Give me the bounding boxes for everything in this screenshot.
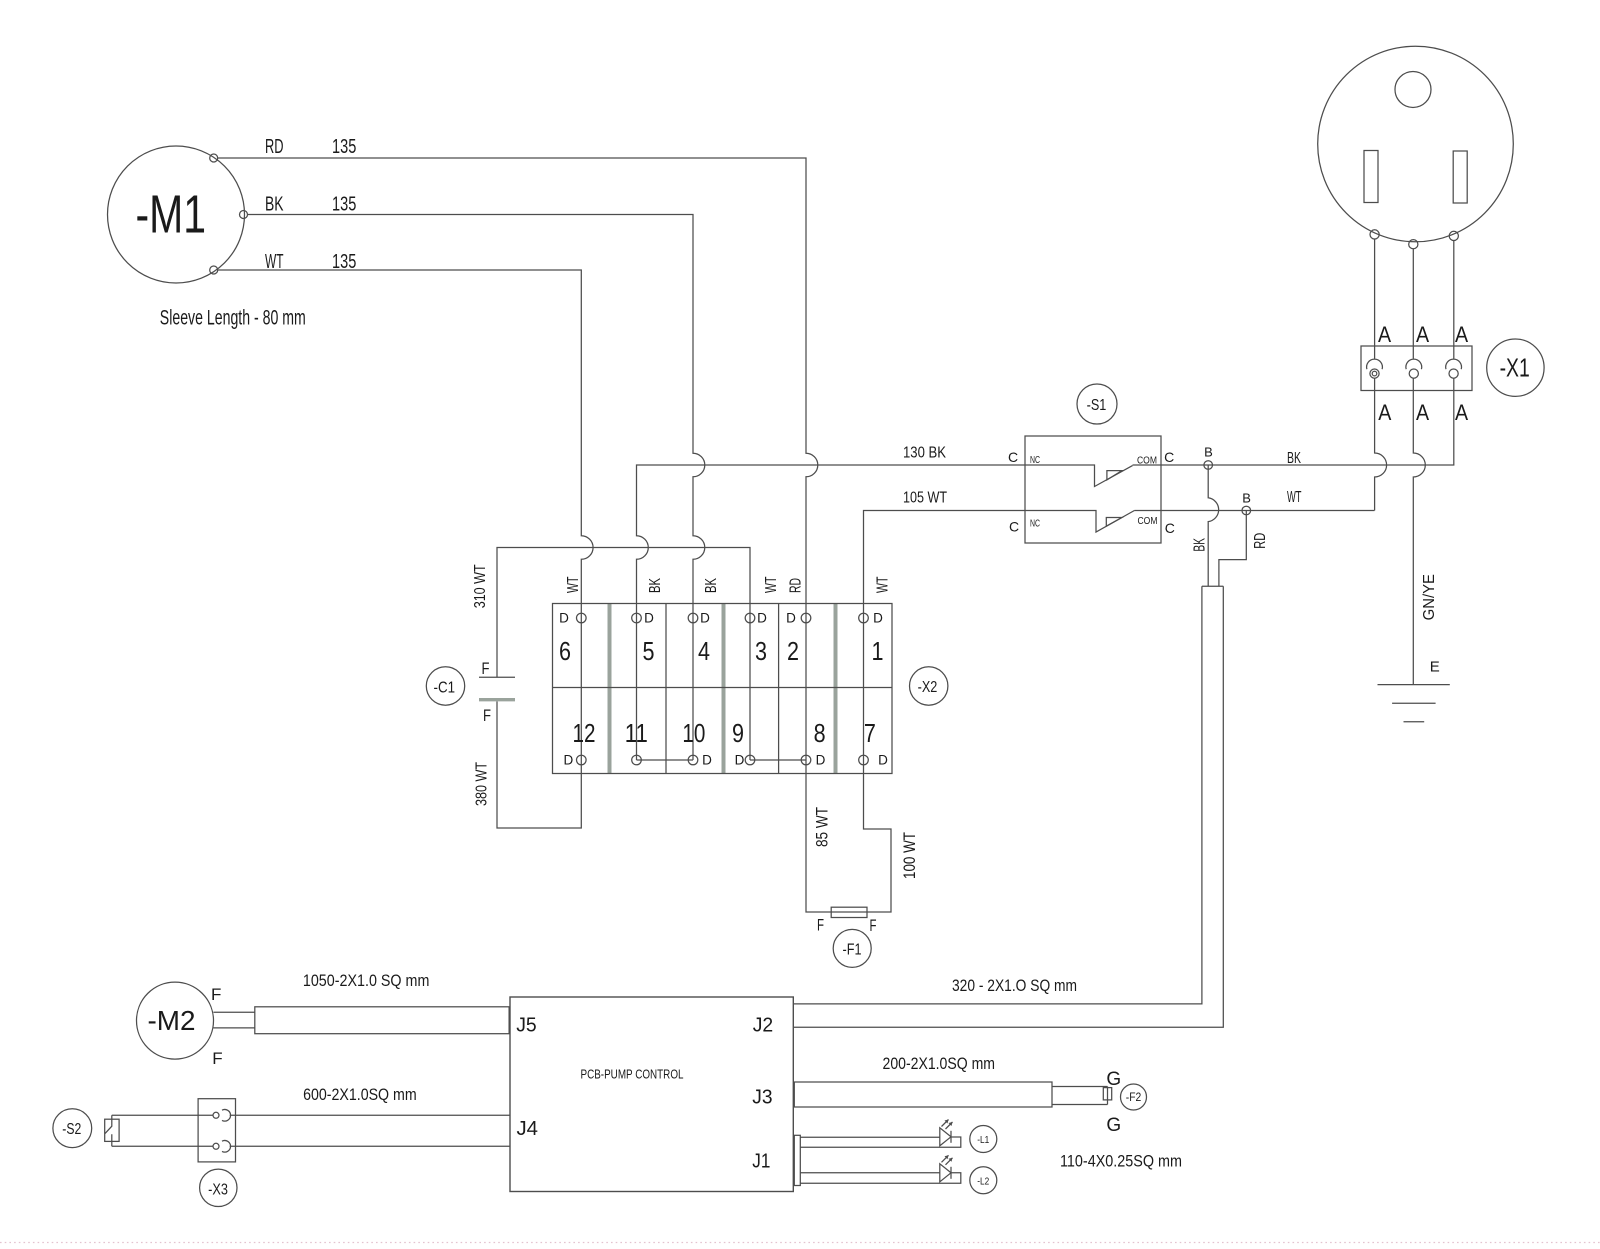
svg-text:130 BK: 130 BK: [903, 444, 947, 461]
svg-text:F: F: [212, 1049, 222, 1068]
svg-text:J1: J1: [752, 1151, 770, 1173]
svg-text:G: G: [1106, 1115, 1121, 1136]
svg-text:F: F: [817, 916, 824, 935]
svg-text:WT: WT: [565, 576, 582, 593]
svg-text:D: D: [702, 752, 712, 767]
svg-text:D: D: [700, 611, 710, 626]
svg-text:RD: RD: [265, 135, 284, 158]
svg-text:F: F: [211, 985, 221, 1004]
svg-text:-L2: -L2: [977, 1175, 989, 1187]
svg-text:BK: BK: [647, 578, 664, 593]
svg-text:D: D: [644, 611, 654, 626]
svg-text:-M1: -M1: [136, 185, 207, 245]
svg-text:RD: RD: [1252, 533, 1269, 549]
svg-text:-L1: -L1: [977, 1134, 989, 1146]
svg-text:D: D: [559, 611, 569, 626]
svg-text:COM: COM: [1138, 516, 1158, 527]
svg-text:G: G: [1106, 1069, 1121, 1090]
svg-text:GN/YE: GN/YE: [1421, 574, 1438, 620]
svg-text:J5: J5: [516, 1015, 537, 1037]
svg-text:600-2X1.0SQ mm: 600-2X1.0SQ mm: [303, 1085, 417, 1104]
svg-text:-C1: -C1: [434, 679, 456, 696]
svg-text:8: 8: [814, 718, 826, 748]
svg-text:9: 9: [732, 718, 744, 748]
svg-text:10: 10: [682, 718, 705, 748]
svg-text:D: D: [564, 752, 574, 767]
svg-text:380 WT: 380 WT: [474, 762, 491, 806]
svg-text:D: D: [757, 611, 767, 626]
svg-text:D: D: [873, 611, 883, 626]
svg-text:11: 11: [625, 718, 648, 748]
svg-text:F: F: [483, 706, 491, 725]
svg-text:J4: J4: [517, 1118, 539, 1140]
svg-text:-M2: -M2: [148, 1005, 196, 1036]
svg-text:D: D: [735, 752, 745, 767]
svg-text:WT: WT: [875, 576, 892, 593]
svg-text:-F2: -F2: [1126, 1090, 1142, 1104]
svg-text:D: D: [878, 752, 888, 767]
svg-text:A: A: [1455, 322, 1468, 347]
svg-text:A: A: [1378, 322, 1391, 347]
svg-text:310 WT: 310 WT: [472, 564, 489, 608]
svg-text:RD: RD: [788, 578, 805, 593]
svg-text:F: F: [482, 659, 490, 678]
svg-text:J2: J2: [753, 1015, 774, 1037]
svg-text:Sleeve Length - 80 mm: Sleeve Length - 80 mm: [160, 307, 306, 330]
svg-text:105 WT: 105 WT: [903, 490, 947, 507]
svg-text:135: 135: [332, 193, 356, 216]
svg-text:E: E: [1430, 659, 1440, 676]
svg-text:-X2: -X2: [918, 679, 938, 696]
svg-text:A: A: [1378, 400, 1391, 425]
svg-text:-S1: -S1: [1087, 397, 1107, 414]
svg-text:135: 135: [332, 135, 356, 158]
svg-text:85 WT: 85 WT: [813, 807, 832, 847]
svg-text:WT: WT: [763, 576, 780, 593]
svg-text:C: C: [1164, 449, 1174, 465]
svg-text:4: 4: [698, 636, 710, 666]
svg-text:F: F: [870, 916, 877, 935]
svg-text:BK: BK: [703, 578, 720, 593]
svg-text:D: D: [816, 752, 826, 767]
svg-text:110-4X0.25SQ mm: 110-4X0.25SQ mm: [1060, 1152, 1182, 1171]
svg-text:A: A: [1416, 400, 1429, 425]
svg-text:5: 5: [643, 636, 655, 666]
svg-text:BK: BK: [1287, 450, 1301, 467]
svg-text:-S2: -S2: [62, 1121, 81, 1138]
svg-text:C: C: [1008, 449, 1018, 465]
svg-text:NC: NC: [1030, 519, 1040, 530]
svg-text:12: 12: [573, 718, 596, 748]
svg-text:320 - 2X1.O SQ mm: 320 - 2X1.O SQ mm: [952, 976, 1077, 995]
svg-text:BK: BK: [1192, 538, 1209, 552]
svg-text:-X3: -X3: [208, 1182, 228, 1199]
svg-text:1050-2X1.0 SQ mm: 1050-2X1.0 SQ mm: [303, 971, 430, 990]
svg-text:D: D: [786, 611, 796, 626]
svg-text:200-2X1.0SQ mm: 200-2X1.0SQ mm: [883, 1054, 996, 1073]
svg-text:A: A: [1416, 322, 1429, 347]
svg-text:PCB-PUMP CONTROL: PCB-PUMP CONTROL: [581, 1067, 684, 1082]
svg-text:C: C: [1009, 519, 1019, 535]
svg-text:J3: J3: [752, 1086, 772, 1108]
svg-text:2: 2: [787, 636, 799, 666]
svg-text:B: B: [1204, 445, 1213, 460]
svg-text:BK: BK: [265, 193, 284, 216]
svg-text:-F1: -F1: [843, 942, 862, 959]
svg-text:7: 7: [864, 718, 876, 748]
svg-text:100 WT: 100 WT: [900, 832, 919, 879]
svg-text:6: 6: [559, 636, 571, 666]
svg-text:WT: WT: [1287, 489, 1302, 506]
svg-text:C: C: [1165, 520, 1175, 536]
svg-text:A: A: [1455, 400, 1468, 425]
svg-text:B: B: [1242, 491, 1251, 506]
svg-text:1: 1: [872, 636, 884, 666]
svg-text:3: 3: [755, 636, 767, 666]
svg-text:-X1: -X1: [1500, 353, 1530, 383]
svg-text:NC: NC: [1030, 455, 1040, 466]
